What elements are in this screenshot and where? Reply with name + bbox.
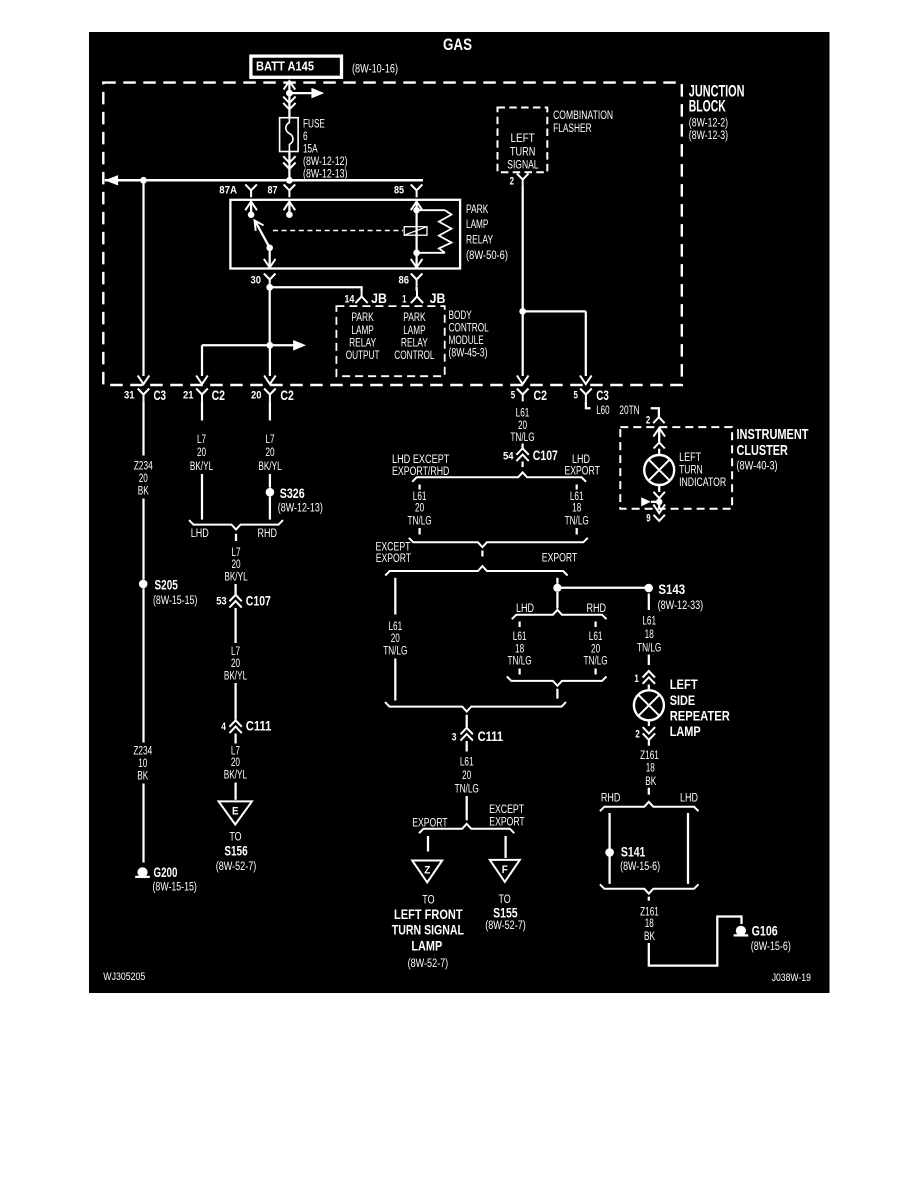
svg-text:20: 20 [197,445,206,459]
svg-text:TURN: TURN [510,145,536,159]
svg-text:(8W-52-7): (8W-52-7) [485,918,526,932]
svg-text:RHD: RHD [258,526,278,540]
svg-text:54: 54 [503,450,514,462]
svg-text:TO: TO [422,892,434,906]
svg-text:C2: C2 [534,387,548,403]
svg-text:5: 5 [574,389,578,401]
svg-text:TN/LG: TN/LG [408,513,432,527]
svg-text:20TN: 20TN [619,403,639,417]
svg-text:(8W-12-13): (8W-12-13) [303,166,348,180]
svg-text:BK/YL: BK/YL [190,459,213,473]
svg-text:GAS: GAS [443,35,472,54]
svg-text:CONTROL: CONTROL [394,348,434,362]
svg-text:SIGNAL: SIGNAL [507,158,538,172]
svg-text:2: 2 [510,176,514,188]
svg-text:TN/LG: TN/LG [510,430,534,444]
svg-text:18: 18 [646,761,655,775]
svg-text:COMBINATION: COMBINATION [553,108,613,122]
svg-text:BK/YL: BK/YL [224,569,247,583]
svg-text:C107: C107 [246,593,271,608]
svg-text:C111: C111 [478,729,504,744]
svg-text:WJ305205: WJ305205 [103,971,145,983]
svg-text:J038W-19: J038W-19 [772,972,811,984]
svg-text:JB: JB [430,291,446,306]
svg-text:LEFT: LEFT [670,677,699,692]
svg-text:S205: S205 [155,577,179,592]
svg-text:85: 85 [394,185,404,197]
svg-text:BK: BK [138,483,149,497]
svg-text:RHD: RHD [587,601,607,615]
svg-text:INDICATOR: INDICATOR [679,475,726,489]
svg-text:4: 4 [221,721,226,733]
svg-text:EXPORT: EXPORT [489,814,525,828]
svg-text:G106: G106 [752,924,778,939]
svg-text:BK: BK [644,929,655,943]
svg-text:TN/LG: TN/LG [508,654,532,668]
svg-text:LEFT FRONT: LEFT FRONT [394,907,463,922]
svg-text:EXPORT: EXPORT [565,463,601,477]
svg-text:TO: TO [499,892,511,906]
svg-text:(8W-40-3): (8W-40-3) [737,459,778,473]
svg-text:EXPORT: EXPORT [542,551,578,565]
svg-text:OUTPUT: OUTPUT [346,348,380,362]
svg-text:(8W-52-7): (8W-52-7) [216,859,257,873]
svg-text:C2: C2 [212,387,226,403]
svg-text:TN/LG: TN/LG [637,640,661,654]
svg-text:BATT A145: BATT A145 [256,60,314,74]
svg-text:LEFT: LEFT [510,131,535,145]
svg-text:G200: G200 [154,865,178,880]
svg-text:TN/LG: TN/LG [584,654,608,668]
svg-text:5: 5 [511,389,515,401]
svg-text:INSTRUMENT: INSTRUMENT [737,427,809,443]
svg-text:86: 86 [399,275,410,287]
svg-text:TO: TO [229,829,241,843]
svg-text:FLASHER: FLASHER [553,121,592,135]
svg-text:BLOCK: BLOCK [689,96,726,115]
svg-text:LAMP: LAMP [411,939,442,954]
svg-text:21: 21 [183,389,194,401]
svg-text:TN/LG: TN/LG [455,781,479,795]
svg-text:LAMP: LAMP [466,217,488,231]
svg-text:EXPORT/RHD: EXPORT/RHD [392,464,450,478]
svg-text:LHD: LHD [191,526,209,540]
svg-text:(8W-10-16): (8W-10-16) [352,62,398,76]
svg-text:(8W-52-7): (8W-52-7) [408,956,449,970]
svg-text:TURN SIGNAL: TURN SIGNAL [392,923,464,938]
svg-text:SIDE: SIDE [670,693,696,708]
svg-text:TN/LG: TN/LG [565,513,589,527]
svg-text:L60: L60 [596,403,610,417]
svg-text:87: 87 [268,185,278,197]
svg-text:TN/LG: TN/LG [383,644,407,658]
svg-text:C111: C111 [246,719,272,734]
svg-text:18: 18 [645,916,654,930]
svg-text:(8W-12-3): (8W-12-3) [689,128,728,142]
svg-text:L61: L61 [642,614,656,628]
svg-text:F: F [502,864,508,876]
svg-text:30: 30 [251,275,262,287]
svg-text:2: 2 [646,414,650,426]
svg-text:3: 3 [452,731,457,743]
svg-text:PARK: PARK [466,202,488,216]
svg-text:20: 20 [251,389,262,401]
svg-text:BK/YL: BK/YL [224,668,247,682]
svg-text:L61: L61 [460,754,474,768]
svg-text:LHD: LHD [516,601,534,615]
svg-text:EXPORT: EXPORT [412,816,448,830]
svg-text:1: 1 [402,294,406,306]
svg-text:20: 20 [462,768,471,782]
svg-text:S143: S143 [658,582,685,597]
svg-text:S156: S156 [224,844,248,859]
svg-text:C3: C3 [154,387,167,403]
svg-text:(8W-12-33): (8W-12-33) [658,598,704,612]
svg-text:(8W-45-3): (8W-45-3) [449,346,488,360]
svg-text:S326: S326 [280,486,305,501]
svg-text:31: 31 [124,389,135,401]
svg-text:53: 53 [216,596,227,608]
svg-text:(8W-15-15): (8W-15-15) [153,880,197,894]
svg-text:S141: S141 [621,844,646,859]
svg-text:CLUSTER: CLUSTER [737,443,789,459]
svg-text:87A: 87A [219,185,237,197]
svg-text:(8W-15-6): (8W-15-6) [620,859,660,873]
svg-text:LHD: LHD [680,790,698,804]
svg-text:(8W-12-13): (8W-12-13) [278,501,323,515]
svg-text:C2: C2 [280,387,294,403]
svg-text:RELAY: RELAY [466,233,493,247]
svg-text:C107: C107 [533,448,558,463]
svg-text:BK/YL: BK/YL [224,768,247,782]
svg-text:(8W-15-15): (8W-15-15) [153,593,197,607]
svg-text:LAMP: LAMP [670,724,701,739]
svg-text:RHD: RHD [601,790,621,804]
svg-text:9: 9 [646,513,650,525]
svg-text:BK: BK [137,768,148,782]
svg-text:1: 1 [634,673,638,685]
svg-text:E: E [232,806,239,818]
svg-text:JB: JB [371,291,387,306]
svg-text:Z: Z [424,865,430,877]
svg-text:EXPORT: EXPORT [376,551,412,565]
svg-text:(8W-15-6): (8W-15-6) [751,939,791,953]
svg-text:2: 2 [635,728,639,740]
svg-text:20: 20 [265,445,274,459]
svg-text:18: 18 [572,500,581,514]
svg-text:BK/YL: BK/YL [258,459,281,473]
svg-text:BK: BK [645,774,656,788]
svg-text:18: 18 [645,627,654,641]
svg-text:20: 20 [415,500,424,514]
svg-text:(8W-50-6): (8W-50-6) [466,248,508,262]
svg-text:14: 14 [344,294,355,306]
svg-text:REPEATER: REPEATER [670,708,730,723]
svg-text:C3: C3 [596,387,609,403]
